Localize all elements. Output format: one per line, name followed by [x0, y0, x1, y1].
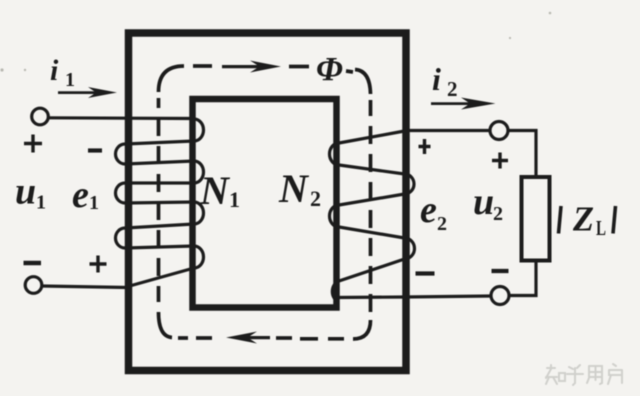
wire to bottom-left terminal — [42, 286, 128, 288]
svg-text:u: u — [473, 181, 494, 223]
plus top-left — [24, 135, 42, 153]
entry slant — [339, 131, 405, 143]
flux arrow bottom (leftwards) — [226, 332, 270, 344]
top-right corner arc — [355, 70, 371, 95]
top dash before phi — [289, 65, 309, 69]
char zhi — [546, 365, 557, 384]
svg-text:e: e — [420, 189, 437, 231]
current arrow i2 — [431, 98, 496, 110]
bottom-left corner arc — [159, 312, 173, 338]
watermark zhihu user — [546, 364, 622, 385]
top dash — [193, 64, 212, 68]
terminal top-right — [490, 122, 508, 140]
N2 outer bumps — [405, 174, 415, 194]
svg-text:L: L — [596, 216, 606, 240]
wire to top-right terminal — [405, 129, 491, 132]
terminal bottom-left — [25, 277, 42, 294]
minus bottom-right (coil) — [416, 271, 435, 275]
svg-text:u: u — [15, 171, 36, 213]
scan specks — [0, 12, 551, 72]
svg-text:Φ: Φ — [316, 51, 343, 88]
bottom dashes — [300, 337, 344, 341]
N2 crossing wires — [339, 165, 405, 174]
flux path dashed loop — [159, 66, 371, 339]
char hu — [567, 365, 583, 385]
svg-text:Z: Z — [572, 200, 594, 239]
bottom-right corner arc — [353, 320, 371, 339]
svg-text:1: 1 — [65, 69, 75, 91]
primary winding N1 — [42, 118, 204, 288]
load impedance ZL box — [522, 177, 550, 261]
minus bottom-left — [24, 261, 42, 266]
plus bottom-left (coil) — [90, 256, 107, 273]
svg-text:N: N — [199, 168, 231, 213]
plus/minus signs — [24, 135, 509, 274]
char hu2 — [608, 364, 622, 384]
core outer rectangle — [129, 33, 407, 371]
current arrow i1 — [58, 87, 117, 98]
secondary winding N2 — [330, 131, 492, 303]
wire from top-left terminal — [48, 116, 194, 120]
bottom dash left of arrow — [276, 336, 292, 340]
svg-text:2: 2 — [437, 213, 447, 235]
terminal top-left — [32, 108, 49, 125]
svg-text:2: 2 — [493, 203, 503, 225]
label |ZL| — [559, 206, 562, 234]
minus upper-left (coil) — [88, 148, 102, 152]
svg-text:1: 1 — [229, 187, 240, 212]
N1 crossing wires — [125, 141, 194, 144]
flux arrow top (rightwards) — [222, 61, 281, 73]
svg-text:N: N — [278, 166, 310, 211]
N1 outer bumps — [116, 144, 125, 164]
bottom dashes left — [178, 336, 212, 340]
char yong — [587, 366, 602, 384]
top-left corner arc — [159, 66, 185, 92]
minus right (terminal) — [492, 269, 509, 273]
plus top-right (coil) — [419, 139, 431, 154]
svg-text:e: e — [72, 174, 89, 216]
load circuit wires — [508, 131, 536, 296]
left vertical dashes — [157, 98, 161, 302]
svg-text:2: 2 — [310, 186, 321, 211]
right vertical dashes — [369, 100, 373, 312]
terminal bottom-right — [491, 287, 509, 305]
svg-text:1: 1 — [36, 192, 46, 214]
N1 inner bumps — [194, 119, 204, 141]
svg-text:2: 2 — [447, 77, 458, 101]
N2 inner bumps — [330, 143, 340, 165]
svg-text:i: i — [432, 61, 441, 97]
top dash after phi — [346, 71, 353, 72]
svg-text:1: 1 — [89, 192, 99, 214]
plus right (terminal) — [492, 153, 508, 169]
core inner rectangle (window) — [193, 99, 337, 308]
svg-text:i: i — [50, 54, 59, 87]
wire to bottom-right terminal — [336, 296, 491, 298]
